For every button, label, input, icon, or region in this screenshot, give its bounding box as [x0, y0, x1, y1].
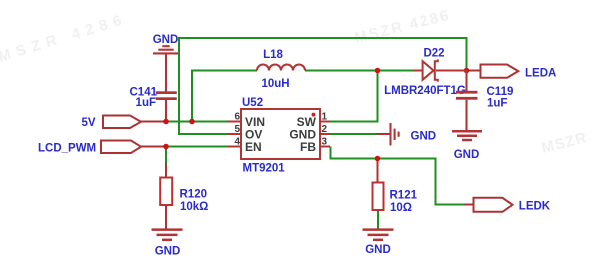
svg-text:D22: D22 — [423, 48, 444, 60]
wire SW net from pin1 up to L18/D22 row — [330, 71, 378, 122]
svg-text:GND: GND — [454, 149, 480, 161]
port 5V — [103, 116, 141, 129]
wire GND pin2 to ground symbol — [330, 133, 378, 135]
svg-text:5: 5 — [234, 124, 240, 135]
node SW/L18/D22 junction — [375, 68, 381, 74]
inductor L18 — [257, 65, 305, 71]
svg-text:EN: EN — [245, 140, 262, 154]
pin 1 SW — [320, 121, 330, 123]
svg-text:C119: C119 — [487, 86, 514, 98]
svg-text:GND: GND — [155, 245, 181, 257]
pin 4 EN — [227, 146, 241, 148]
ground top-left (inverted, for C141) — [153, 46, 178, 91]
op-amp U52 body (MT9201 LED driver) — [241, 109, 320, 159]
node LCD_PWM/R120 junction — [163, 144, 169, 150]
wire 5V port lead — [140, 121, 167, 123]
svg-text:LMBR240FT1G: LMBR240FT1G — [384, 85, 466, 97]
port LEDA — [481, 65, 519, 78]
resistor R120 — [160, 178, 172, 206]
capacitor C141 — [156, 91, 177, 100]
ground below R120 — [152, 230, 183, 240]
svg-text:R120: R120 — [180, 188, 208, 200]
svg-text:1uF: 1uF — [136, 97, 156, 109]
capacitor C119 — [465, 71, 467, 92]
svg-text:R121: R121 — [390, 190, 418, 202]
port LCD_PWM — [101, 141, 141, 154]
svg-text:2: 2 — [322, 124, 328, 135]
svg-text:6: 6 — [234, 112, 240, 123]
pin 2 GND — [320, 133, 330, 135]
wire OV net: top horizontal from x179 to x466.5 with verticals down to OV pin and to D22 cathode node — [179, 38, 467, 134]
ground below R121 — [363, 230, 394, 240]
svg-text:10uH: 10uH — [261, 78, 289, 90]
svg-text:GND: GND — [365, 244, 391, 256]
svg-text:5V: 5V — [81, 117, 95, 129]
svg-text:U52: U52 — [242, 97, 263, 109]
pin 6 VIN — [227, 121, 241, 123]
svg-text:1uF: 1uF — [487, 98, 507, 110]
port LEDK — [474, 198, 513, 212]
svg-text:4: 4 — [234, 137, 240, 148]
wire FB net to R121 and LEDK — [331, 147, 466, 205]
wire L18 right to diode anode — [305, 70, 414, 72]
svg-text:FB: FB — [300, 140, 316, 154]
node 5V/L18 junction — [189, 119, 195, 125]
svg-text:1: 1 — [322, 112, 328, 123]
node 5V/C141 junction — [163, 119, 169, 125]
ground below C119 — [452, 131, 482, 140]
node D22/C119/LEDA junction — [464, 68, 470, 74]
wire R121 bottom lead to ground — [377, 210, 379, 230]
wire 5V row to VIN — [166, 121, 227, 123]
svg-text:L18: L18 — [263, 49, 283, 61]
svg-text:10Ω: 10Ω — [390, 202, 412, 214]
pin 5 OV — [227, 133, 241, 135]
wire LCD_PWM port lead — [140, 146, 167, 148]
wire R121 top lead — [377, 159, 379, 183]
wire L18 left branch from 5V row up to inductor — [192, 71, 257, 122]
pin 3 FB — [320, 146, 330, 148]
ground sideways (IC pin 2) — [391, 123, 399, 146]
wire D22 cathode node to LEDA port — [467, 70, 481, 72]
diode D22 (schottky) — [413, 70, 423, 72]
svg-text:3: 3 — [322, 137, 328, 148]
wire R120 branch down from LCD_PWM row — [165, 147, 167, 165]
node FB/R121 junction — [375, 156, 381, 162]
wire LCD_PWM row to EN — [166, 146, 227, 148]
svg-text:10kΩ: 10kΩ — [180, 201, 208, 213]
wire R120 bottom lead to ground — [165, 205, 167, 230]
svg-text:GND: GND — [153, 34, 179, 46]
resistor R121 — [373, 183, 384, 211]
svg-text:LCD_PWM: LCD_PWM — [38, 142, 96, 154]
svg-text:GND: GND — [411, 131, 437, 143]
svg-text:MT9201: MT9201 — [243, 163, 286, 175]
svg-text:LEDA: LEDA — [525, 67, 556, 79]
svg-text:LEDK: LEDK — [519, 201, 551, 213]
